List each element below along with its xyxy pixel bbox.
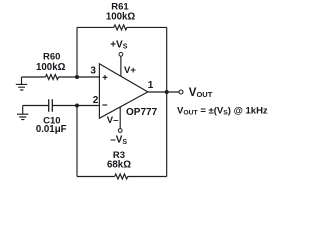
wire V+ supply stub [120,56,122,76]
capacitor C10 [49,99,53,111]
junction node A [75,75,79,79]
svg-text:–VS: –VS [110,135,127,146]
resistor R61 [114,25,127,30]
op-amp plus symbol [103,75,108,80]
ground G1 [16,77,27,90]
wire inverting input (pin 2) [23,105,100,107]
wire noninverting input (pin 3) [22,76,100,78]
terminal -VS circle [118,129,122,133]
wire R61 top horizontal [77,26,167,28]
wire V- supply stub [119,107,121,128]
wire node B vertical down to R3 [76,106,78,177]
wire R3 bottom horizontal [77,176,167,178]
wire right vertical from R61 down through output node to R3 [166,27,168,176]
svg-text:100kΩ: 100kΩ [36,62,66,73]
wire output from apex to VOUT terminal [148,91,179,93]
resistor R3 [115,174,128,179]
svg-text:2: 2 [93,95,99,106]
svg-text:68kΩ: 68kΩ [107,159,131,170]
svg-text:V–: V– [107,115,119,126]
svg-text:VOUT = ±(VS) @ 1kHz: VOUT = ±(VS) @ 1kHz [177,106,268,117]
svg-text:1: 1 [148,80,154,91]
svg-text:0.01μF: 0.01μF [36,124,67,135]
ground G2 [17,106,28,120]
svg-text:V+: V+ [124,65,136,76]
terminal VOUT circle [179,90,183,94]
svg-text:R60: R60 [43,52,60,63]
op-amp minus symbol [102,104,107,106]
wire left vertical from R61 down to node A [76,27,78,77]
svg-text:3: 3 [90,66,96,77]
svg-text:VOUT: VOUT [189,87,213,99]
svg-text:+VS: +VS [110,39,128,50]
svg-text:OP777: OP777 [126,107,158,118]
op-amp U1 triangle [99,64,147,119]
terminal +VS circle [119,52,123,56]
junction node B [75,104,79,108]
junction output node [165,90,169,94]
svg-text:100kΩ: 100kΩ [106,11,136,22]
resistor R60 [46,75,59,80]
